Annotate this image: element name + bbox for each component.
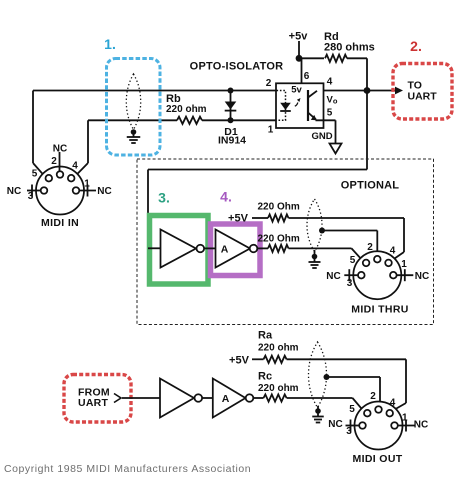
svg-text:GND: GND [311, 131, 332, 142]
svg-text:2.: 2. [410, 38, 422, 54]
svg-text:5: 5 [32, 169, 38, 180]
svg-text:4: 4 [390, 398, 396, 409]
svg-text:UART: UART [78, 397, 108, 409]
svg-text:220 ohm: 220 ohm [258, 383, 299, 394]
svg-text:3.: 3. [158, 190, 170, 206]
svg-text:2: 2 [51, 156, 57, 167]
svg-text:OPTO-ISOLATOR: OPTO-ISOLATOR [190, 61, 284, 73]
svg-text:3: 3 [347, 278, 353, 289]
svg-text:5: 5 [349, 404, 355, 415]
svg-text:+5V: +5V [228, 213, 249, 225]
svg-text:IN914: IN914 [218, 135, 246, 147]
svg-text:2: 2 [370, 391, 376, 402]
svg-text:220 Ohm: 220 Ohm [258, 234, 300, 245]
svg-text:NC: NC [97, 186, 111, 197]
svg-text:NC: NC [415, 271, 429, 282]
svg-text:NC: NC [328, 419, 342, 430]
svg-text:MIDI IN: MIDI IN [41, 217, 79, 229]
svg-text:4: 4 [327, 77, 333, 88]
svg-text:5: 5 [327, 108, 333, 119]
svg-text:1: 1 [402, 413, 408, 424]
svg-text:MIDI OUT: MIDI OUT [352, 453, 402, 465]
svg-text:1: 1 [401, 259, 407, 270]
svg-text:NC: NC [414, 420, 428, 431]
svg-text:4: 4 [72, 161, 78, 172]
svg-text:NC: NC [53, 144, 67, 155]
svg-text:+5v: +5v [289, 31, 309, 43]
svg-text:5: 5 [350, 255, 356, 266]
svg-text:3: 3 [346, 426, 352, 437]
svg-text:A: A [222, 393, 230, 405]
svg-text:220 Ohm: 220 Ohm [258, 202, 300, 213]
svg-text:Ra: Ra [258, 330, 273, 342]
svg-text:280 ohms: 280 ohms [324, 42, 375, 54]
svg-text:220 ohm: 220 ohm [166, 104, 207, 115]
svg-text:Rc: Rc [258, 371, 272, 383]
svg-text:NC: NC [7, 186, 21, 197]
svg-text:1: 1 [84, 179, 90, 190]
svg-text:UART: UART [408, 91, 438, 103]
svg-text:3: 3 [28, 191, 34, 202]
svg-text:OPTIONAL: OPTIONAL [341, 180, 400, 192]
svg-text:Vo: Vo [327, 95, 338, 106]
svg-text:2: 2 [266, 78, 272, 89]
svg-text:+5V: +5V [229, 355, 250, 367]
svg-text:1: 1 [268, 125, 274, 136]
svg-text:A: A [221, 244, 229, 256]
svg-text:Copyright 1985 MIDI Manufactur: Copyright 1985 MIDI Manufacturers Associ… [4, 463, 251, 475]
svg-text:MIDI THRU: MIDI THRU [351, 304, 408, 316]
svg-text:4: 4 [390, 246, 396, 257]
svg-text:NC: NC [326, 271, 340, 282]
svg-text:2: 2 [367, 242, 373, 253]
svg-text:5v: 5v [291, 85, 302, 96]
svg-text:220 ohm: 220 ohm [258, 343, 299, 354]
svg-text:6: 6 [304, 71, 310, 82]
svg-text:4.: 4. [220, 189, 232, 205]
svg-text:1.: 1. [104, 36, 116, 52]
